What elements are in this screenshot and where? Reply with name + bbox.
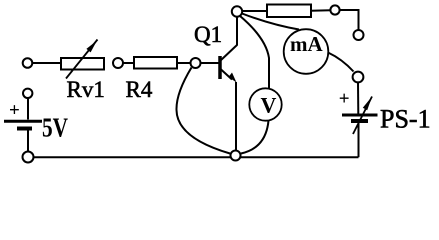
wire battery 5V to node J	[27, 131, 29, 152]
svg-text:+: +	[9, 100, 20, 121]
node E (circle right of top resistor)	[330, 5, 339, 14]
wire PS-1 to bottom rail	[358, 123, 360, 157]
node H (bottom junction circle)	[231, 151, 241, 161]
node terminal F (upper right open circle)	[354, 30, 364, 40]
wire voltmeter to bottom node H	[241, 121, 269, 154]
node terminal I (left lower open circle)	[23, 89, 32, 98]
wire base node curve down to bottom node H	[176, 68, 230, 154]
wire top resistor to node E	[311, 9, 331, 12]
svg-text:Rv1: Rv1	[67, 77, 105, 102]
ammeter mA	[284, 29, 329, 74]
wire R4 to base node	[177, 62, 191, 64]
node terminal IN1 (left upper open circle)	[23, 58, 33, 68]
node D (collector top node circle)	[232, 6, 242, 16]
node C (base node circle)	[191, 58, 201, 68]
svg-text:+: +	[339, 89, 350, 110]
svg-text:mA: mA	[290, 32, 323, 56]
wire IN1 to Rv1	[33, 62, 62, 64]
wire node E to terminal F	[340, 10, 359, 30]
svg-text:5V: 5V	[42, 113, 68, 143]
voltmeter V	[249, 88, 281, 120]
node B (circle between Rv1 and R4)	[113, 58, 123, 68]
resistor R4 body	[134, 57, 177, 69]
wire bottom rail	[34, 156, 359, 158]
svg-text:PS-1: PS-1	[380, 105, 431, 134]
battery 5V	[4, 100, 42, 129]
wire ammeter to terminal G	[328, 53, 354, 72]
transistor Q1	[220, 45, 237, 83]
wire terminal I to battery 5V	[27, 98, 29, 120]
resistor Rv1 body	[61, 58, 104, 70]
wire node D to top resistor	[242, 10, 267, 12]
svg-text:V: V	[261, 93, 277, 118]
wire base node to Q1 base	[201, 62, 219, 64]
wire node D to ammeter	[242, 14, 299, 30]
svg-text:Q1: Q1	[194, 22, 222, 47]
svg-text:R4: R4	[126, 77, 153, 102]
wire terminal G down to PS-1	[357, 83, 359, 114]
wire Q1 emitter down to bottom node H	[235, 82, 237, 150]
battery PS-1 (variable)	[339, 89, 378, 135]
wire node B to R4	[123, 62, 134, 64]
node terminal G (lower right open circle)	[353, 72, 364, 83]
resistor Rv1 wiper arrow	[66, 40, 98, 79]
node J (bottom left open circle)	[23, 152, 34, 163]
wire node D down-curve to voltmeter	[240, 16, 269, 88]
resistor (top, unlabeled) body	[267, 5, 311, 18]
wire Q1 collector up to node D	[236, 17, 238, 46]
